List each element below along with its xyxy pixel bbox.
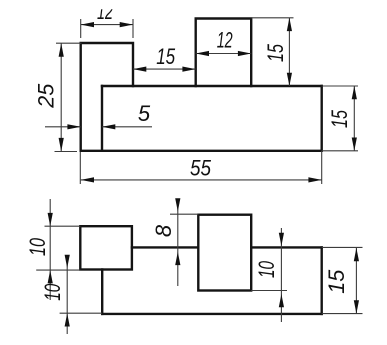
svg-text:8: 8	[151, 224, 176, 237]
svg-text:10: 10	[25, 237, 50, 256]
svg-text:15: 15	[263, 43, 288, 62]
svg-text:15: 15	[327, 109, 352, 128]
svg-text:10: 10	[40, 283, 65, 301]
svg-text:25: 25	[34, 83, 59, 109]
svg-text:10: 10	[254, 260, 279, 278]
svg-text:55: 55	[190, 155, 212, 180]
svg-text:15: 15	[324, 269, 349, 294]
svg-text:15: 15	[156, 44, 176, 69]
svg-text:12: 12	[217, 27, 233, 52]
svg-text:5: 5	[138, 101, 151, 126]
